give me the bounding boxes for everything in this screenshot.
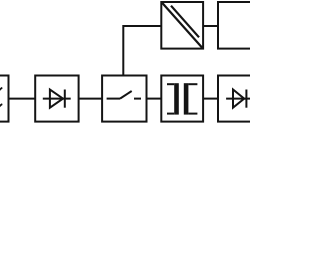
- AC sine wave tip (lower): [0, 104, 2, 108]
- AC sine wave tip (upper): [0, 88, 2, 92]
- wire: U1 to auxiliary output block: [203, 25, 218, 27]
- wire: AC source to rectifier D1: [9, 98, 36, 100]
- AC source block (cut off at left edge): [0, 76, 9, 122]
- rectifier block D1: [35, 76, 78, 122]
- switch block S1: [102, 76, 146, 122]
- diode D1: [43, 90, 71, 108]
- transformer T1 windings: [167, 83, 197, 114]
- switch S1 contacts: [107, 91, 141, 99]
- wire: T1 to rectifier D2: [203, 98, 218, 100]
- wire: D1 to switch S1: [79, 98, 103, 100]
- converter U1 diagonal lines: [162, 3, 202, 48]
- wire: S1 to transformer T1: [147, 98, 162, 100]
- auxiliary output block (empty, cut off at right edge): [218, 2, 266, 49]
- rectifier block D2 (cut off at right edge): [218, 76, 266, 122]
- transformer block T1: [161, 76, 203, 122]
- diode D2: [226, 90, 254, 108]
- converter block U1 (diagonal symbol): [161, 2, 203, 49]
- wire: riser from S1 top to auxiliary branch: [123, 26, 161, 76]
